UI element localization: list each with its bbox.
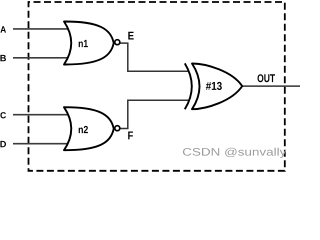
wire B input: [13, 57, 68, 59]
inverter bubble on n2 output: [115, 126, 120, 131]
net label F: [128, 132, 133, 140]
port label C: [0, 112, 6, 118]
port label A: [0, 26, 6, 32]
watermark CSDN @sunvally: [183, 148, 286, 158]
wire OUT output: [242, 85, 300, 87]
wire net F from n2 bubble to xor bottom input: [120, 100, 190, 128]
dashed boundary box: [29, 2, 285, 171]
nor gate n2 label: [79, 126, 88, 133]
port label OUT: [258, 74, 276, 82]
wire net E from n1 bubble to xor top input: [120, 43, 189, 71]
net label E: [128, 32, 133, 40]
port label B: [0, 55, 6, 61]
xor gate #13 body: [192, 64, 242, 110]
inverter bubble on n1 output: [115, 40, 120, 45]
nor gate n1 body: [64, 21, 114, 64]
wire D input: [13, 143, 68, 145]
wire A input: [13, 28, 68, 30]
wire C input: [13, 114, 68, 116]
nor gate n2 body: [64, 107, 114, 150]
port label D: [0, 141, 6, 147]
xor gate #13 leading arc: [185, 63, 192, 109]
nor gate n1 label: [79, 40, 88, 47]
xor gate #13 label: [206, 82, 222, 90]
